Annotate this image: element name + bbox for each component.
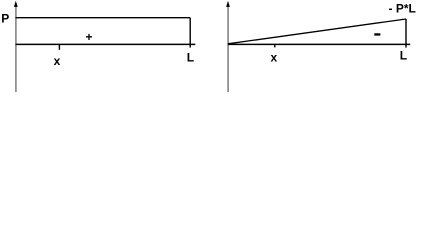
- shear rectangle right edge with tick below axis: [189, 18, 191, 48]
- right x-axis: [228, 43, 410, 45]
- moment right edge with tick below axis: [405, 19, 407, 48]
- moment sloped line: [228, 19, 406, 44]
- svg-text:P: P: [1, 12, 9, 26]
- left tick at x: [58, 44, 60, 49]
- svg-text:x: x: [270, 50, 277, 64]
- shear rectangle top edge: [16, 17, 191, 19]
- right moment diagram vertical axis: [227, 6, 229, 93]
- svg-text:x: x: [54, 54, 61, 68]
- svg-text:- P*L: - P*L: [389, 1, 416, 15]
- right tick at x: [274, 44, 276, 47]
- svg-text:+: +: [85, 30, 92, 44]
- svg-text:L: L: [187, 50, 194, 64]
- right axis arrowhead: [226, 1, 230, 7]
- left shear diagram vertical axis: [15, 6, 17, 93]
- left axis arrowhead: [14, 1, 18, 7]
- left x-axis: [16, 43, 196, 45]
- svg-text:L: L: [400, 48, 407, 62]
- label - (negative moment): [374, 33, 380, 35]
